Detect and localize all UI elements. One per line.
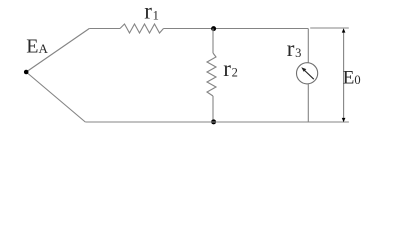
wire: r2 branch upper [212,29,214,54]
wire: meter branch lower [307,84,309,122]
E0 dimension line [343,31,345,120]
wire: left source arrow lower diagonal [26,72,85,122]
meter needle [304,70,314,80]
svg-text:EA: EA [26,36,48,58]
wire: top left segment [89,28,120,30]
resistor r1 [120,24,164,33]
resistor r2 [207,53,216,96]
node: left apex dot [24,70,29,75]
meter needle arrowhead [301,67,306,72]
wire: r2 branch lower [212,96,214,122]
svg-text:E0: E0 [343,68,361,89]
wire: meter branch upper [307,29,309,63]
E0 arrowhead bottom [342,118,346,122]
E0 arrowhead top [342,28,346,32]
svg-text:r2: r2 [223,56,238,81]
wire: left source arrow upper diagonal [26,29,89,73]
wire: bottom segment [85,121,349,123]
wire: top right segment [164,28,309,30]
meter r3 circle [297,63,318,84]
node: top junction dot [211,26,216,31]
svg-text:r3: r3 [287,36,302,61]
wire: top far-right segment [310,27,349,29]
node: bottom junction dot [211,119,216,124]
svg-text:r1: r1 [144,0,159,24]
